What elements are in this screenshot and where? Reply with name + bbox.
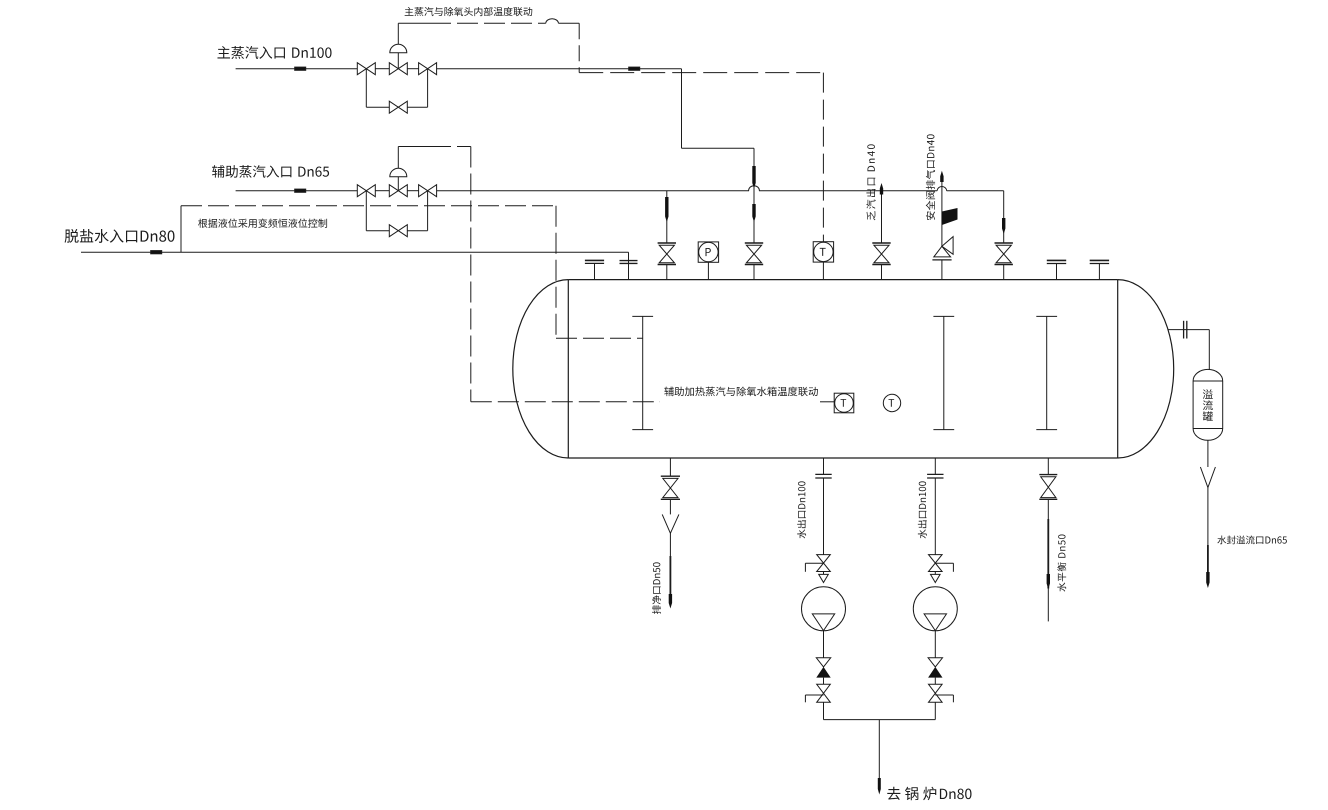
label overflow tank — [1203, 389, 1213, 421]
valve aux steam isolation 2 — [419, 185, 437, 197]
label water outlet pump 2 — [918, 481, 927, 538]
valve main steam vessel nozzle — [745, 243, 763, 265]
valve aux steam vessel nozzle — [658, 243, 676, 265]
valve pump 2 discharge — [929, 684, 954, 702]
funnel drain — [662, 514, 679, 533]
pipe P instrument nozzle — [707, 262, 709, 280]
signal line main steam interlock horiz2 — [579, 72, 823, 74]
reducer pump 1 — [819, 572, 829, 583]
signal line aux interlock horiz — [471, 401, 834, 403]
label safety valve vent — [926, 134, 935, 220]
label water balance — [1057, 535, 1066, 592]
nozzle spare left — [585, 260, 604, 279]
label to boiler — [887, 787, 971, 801]
label water outlet pump 1 — [797, 481, 806, 538]
label level control — [198, 219, 327, 228]
label main steam inlet — [217, 46, 331, 59]
flange pump 2 suction — [927, 474, 943, 478]
label aux heating interlock — [664, 387, 818, 397]
control valve aux steam actuator — [390, 147, 407, 191]
flange demin water nozzle — [620, 261, 638, 264]
label drain — [652, 562, 661, 614]
flange pump 1 suction — [815, 474, 831, 478]
flow arrow exhaust vent up — [880, 183, 883, 195]
signal line aux interlock top — [398, 146, 471, 148]
label aux steam inlet — [212, 165, 329, 178]
flange overflow — [1184, 321, 1187, 339]
vessel deaerator tank shell — [568, 280, 1117, 458]
flag safety valve vent — [942, 208, 958, 225]
control valve main steam body — [389, 63, 407, 75]
valve pump 1 discharge — [805, 684, 830, 702]
nozzle spare right 2 — [1090, 260, 1109, 279]
signal line level control into vessel — [556, 337, 643, 339]
pipe overflow lower — [1207, 440, 1209, 467]
vessel right head — [1118, 280, 1174, 458]
flow arrow aux drop — [665, 197, 668, 222]
overflow seal tank — [1193, 369, 1223, 440]
pipe discharge header — [824, 719, 936, 721]
flow arrow water balance — [1047, 574, 1050, 589]
valve aux steam bypass — [389, 225, 407, 237]
pipe exhaust steam vent Dn40 — [881, 185, 883, 280]
flow arrow main steam drop 2 — [752, 204, 755, 222]
signal line main steam interlock horiz — [398, 19, 579, 24]
signal line level control left — [180, 206, 182, 252]
pipe nozzle aux right — [1003, 265, 1005, 280]
flow arrow safety vent up — [940, 171, 943, 182]
funnel overflow — [1200, 467, 1215, 488]
valve exhaust vent — [872, 243, 890, 265]
internal level gauge 3 — [1036, 316, 1057, 429]
label overflow seal drain — [1217, 536, 1287, 545]
pipe main steam to vessel — [682, 69, 755, 243]
check valve pump 2 — [928, 658, 942, 678]
control valve aux steam body — [389, 185, 407, 197]
signal line level control horiz — [181, 205, 556, 207]
pump 1 booster — [802, 587, 846, 631]
label interlock main steam — [405, 7, 533, 16]
pipe drain lower — [669, 533, 671, 601]
flow arrow drain — [669, 594, 672, 609]
signal line level control vert — [555, 206, 557, 338]
pipe safety valve vent Dn40 — [941, 182, 943, 280]
valve main steam bypass — [389, 101, 407, 113]
pipe drain Dn50 — [669, 458, 671, 514]
pipe nozzle aux steam — [666, 265, 668, 280]
label exhaust steam outlet — [866, 144, 875, 220]
reducer pump 2 — [931, 572, 941, 583]
label demin water inlet — [65, 229, 175, 243]
pipe water balance Dn50 — [1047, 458, 1049, 621]
valve aux right vessel nozzle — [995, 243, 1013, 265]
signal line aux interlock vert — [470, 147, 472, 402]
pipe pump 1 suction — [823, 458, 825, 555]
flow arrow overflow — [1206, 572, 1209, 588]
pipe pump 1 discharge — [823, 631, 825, 720]
control valve main steam actuator — [390, 23, 407, 68]
pipe overflow from vessel — [1168, 330, 1209, 370]
valve aux steam isolation 1 — [357, 185, 375, 197]
pipe main steam inlet line Dn100 — [236, 68, 682, 70]
pipe aux steam inlet line Dn65 — [236, 186, 1004, 191]
valve main steam isolation 1 — [357, 63, 375, 75]
pipe aux steam drop to vessel — [666, 191, 668, 243]
signal line to T instrument — [822, 73, 824, 242]
pipe overflow seal drain — [1207, 488, 1209, 582]
pipe aux steam bypass — [366, 191, 427, 231]
check valve pump 1 — [816, 658, 830, 678]
pipe nozzle main steam — [753, 265, 755, 280]
valve pump 2 suction — [929, 555, 954, 572]
instrument T main steam interlock — [813, 242, 833, 262]
pump 2 booster — [913, 587, 957, 631]
pipe demin water inlet Dn80 — [81, 252, 629, 279]
valve water balance — [1039, 475, 1057, 500]
flow tick main steam — [295, 67, 306, 70]
valve pump 1 suction — [805, 555, 830, 572]
instrument T local — [883, 394, 900, 411]
flow tick main steam 2 — [629, 67, 640, 70]
pipe to boiler — [878, 720, 880, 780]
internal level gauge 1 — [632, 316, 653, 429]
valve drain — [661, 476, 680, 499]
signal line main steam interlock vert — [578, 23, 580, 72]
nozzle spare right 1 — [1047, 260, 1066, 279]
instrument T aux interlock — [834, 393, 854, 413]
internal level gauge 2 — [933, 316, 954, 429]
safety valve — [932, 237, 953, 260]
pipe pump 2 suction — [934, 458, 936, 555]
valve main steam isolation 2 — [419, 63, 437, 75]
flow arrow aux right drop — [1002, 218, 1005, 234]
pipe aux steam right drop — [1003, 191, 1005, 243]
pipe T1 nozzle — [822, 262, 824, 280]
pipe main steam bypass — [366, 69, 427, 108]
instrument P pressure — [698, 242, 718, 262]
flow arrow main steam drop 1 — [752, 166, 755, 189]
flow arrow to boiler — [878, 778, 881, 795]
flow tick aux steam — [295, 189, 306, 192]
flow tick demin water — [151, 251, 162, 254]
pipe pump 2 discharge — [934, 631, 936, 720]
vessel left head — [513, 280, 569, 458]
